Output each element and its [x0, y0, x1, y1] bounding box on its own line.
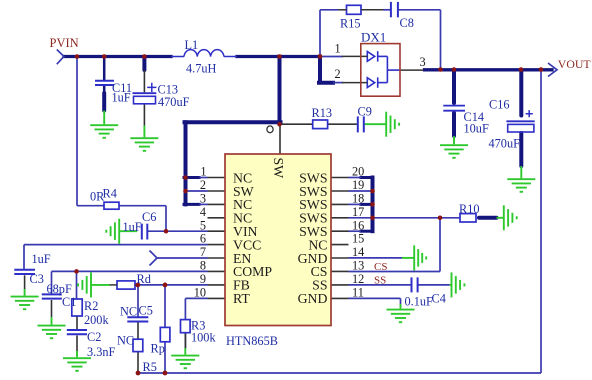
svg-text:10: 10 [194, 286, 206, 300]
svg-text:14: 14 [352, 245, 364, 259]
svg-text:8: 8 [200, 259, 206, 273]
svg-text:R10: R10 [459, 202, 480, 216]
svg-text:SS: SS [374, 275, 386, 287]
svg-text:2: 2 [335, 67, 341, 81]
svg-text:20: 20 [352, 165, 364, 179]
svg-text:1: 1 [335, 42, 341, 56]
svg-text:3: 3 [420, 55, 426, 69]
svg-text:7: 7 [200, 245, 206, 259]
svg-text:R15: R15 [340, 17, 361, 31]
svg-text:470uF: 470uF [158, 95, 190, 109]
svg-text:L1: L1 [185, 38, 199, 52]
svg-text:C1: C1 [62, 295, 76, 309]
svg-text:SW: SW [271, 158, 286, 179]
svg-text:R4: R4 [103, 186, 117, 200]
svg-text:R13: R13 [312, 106, 333, 120]
svg-text:NC: NC [120, 305, 137, 319]
svg-text:4: 4 [200, 205, 206, 219]
svg-text:C16: C16 [489, 97, 510, 111]
svg-text:1uF: 1uF [32, 252, 51, 266]
svg-text:1: 1 [200, 165, 206, 179]
svg-text:R5: R5 [143, 360, 157, 374]
svg-text:10uF: 10uF [464, 122, 489, 136]
svg-text:16: 16 [352, 218, 364, 232]
svg-text:NC: NC [117, 334, 134, 348]
svg-text:68pF: 68pF [47, 282, 72, 296]
svg-text:9: 9 [200, 272, 206, 286]
svg-text:4.7uH: 4.7uH [186, 62, 217, 76]
svg-text:PVIN: PVIN [50, 36, 79, 50]
svg-text:Rp: Rp [151, 342, 165, 356]
svg-text:R2: R2 [84, 299, 98, 313]
svg-text:VOUT: VOUT [558, 57, 592, 71]
svg-text:C4: C4 [432, 292, 446, 306]
svg-text:200k: 200k [84, 313, 109, 327]
svg-text:C8: C8 [400, 16, 414, 30]
svg-text:Rd: Rd [137, 272, 151, 286]
svg-text:0.1uF: 0.1uF [405, 295, 434, 309]
svg-text:GND: GND [298, 291, 328, 306]
svg-text:CS: CS [374, 261, 387, 273]
svg-text:1uF: 1uF [123, 220, 142, 234]
svg-text:3.3nF: 3.3nF [87, 345, 116, 359]
svg-text:DX1: DX1 [361, 29, 386, 44]
svg-text:C2: C2 [87, 330, 101, 344]
svg-text:3: 3 [200, 192, 206, 206]
svg-text:13: 13 [352, 259, 364, 273]
svg-text:C9: C9 [358, 105, 372, 119]
svg-text:6: 6 [200, 232, 206, 246]
svg-text:1uF: 1uF [112, 91, 131, 105]
svg-text:11: 11 [352, 286, 364, 300]
svg-text:5: 5 [200, 218, 206, 232]
svg-text:C6: C6 [142, 210, 156, 224]
svg-text:470uF: 470uF [489, 136, 521, 150]
svg-text:HTN865B: HTN865B [226, 334, 278, 348]
svg-text:C5: C5 [139, 304, 153, 318]
svg-text:2: 2 [200, 178, 206, 192]
svg-text:18: 18 [352, 192, 364, 206]
svg-text:15: 15 [352, 232, 364, 246]
svg-text:12: 12 [352, 272, 364, 286]
svg-text:RT: RT [233, 291, 250, 306]
svg-text:C3: C3 [30, 272, 44, 286]
svg-text:17: 17 [352, 205, 364, 219]
svg-text:100k: 100k [191, 331, 216, 345]
svg-text:19: 19 [352, 178, 364, 192]
